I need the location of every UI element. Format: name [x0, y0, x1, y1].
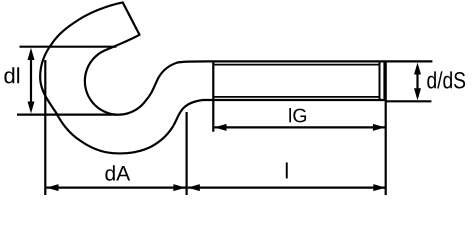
label dl	[4, 67, 14, 83]
label d/dS	[427, 71, 436, 88]
label lG	[289, 108, 291, 122]
dA right extension line	[186, 112, 188, 195]
thread inner line bottom	[213, 96, 380, 98]
d/dS top extension line	[385, 60, 433, 62]
thread end inner vertical	[379, 63, 381, 100]
d/dS arrow	[416, 66, 418, 97]
label dA	[105, 165, 114, 180]
thread start vertical / lG left extension	[212, 61, 214, 131]
dl arrow	[30, 52, 32, 110]
lG dimension line	[214, 126, 385, 128]
label l	[286, 162, 288, 178]
dA left extension line	[44, 60, 46, 195]
dA dimension line	[46, 187, 185, 189]
dl top extension line	[20, 46, 117, 48]
end face / l+lG right extension	[385, 61, 387, 195]
thread inner line top	[213, 64, 380, 66]
d/dS bottom extension line	[386, 100, 432, 102]
hook and shank outline	[40, 2, 384, 153]
l dimension line	[188, 187, 386, 189]
dl bottom extension line	[17, 113, 118, 115]
